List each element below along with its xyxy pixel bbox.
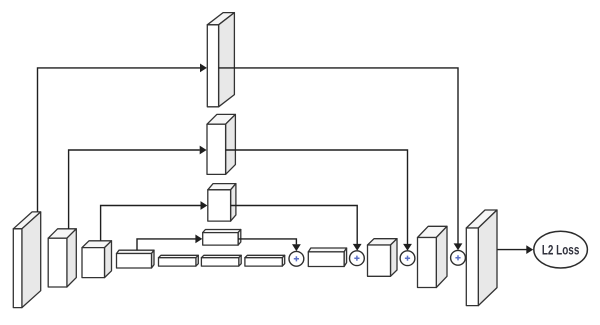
bottleneck box U4	[203, 230, 241, 246]
slab B	[201, 255, 241, 266]
slab A	[159, 255, 199, 266]
decoder box D3	[368, 239, 398, 277]
upsample box U3	[208, 184, 236, 222]
add node A2	[350, 251, 365, 266]
upsample box U1 (top)	[207, 13, 234, 107]
skip wire level2 out	[226, 150, 412, 251]
add node A4	[451, 250, 466, 265]
skip wire level1 out	[219, 68, 463, 250]
encoder box E1	[13, 212, 40, 308]
skip wire level4 in	[137, 235, 202, 251]
add node A3	[400, 251, 415, 266]
skip wire level3 in	[101, 201, 208, 241]
decoder slab D4	[308, 248, 346, 267]
output box D1	[466, 210, 497, 306]
wire to L2 loss	[498, 245, 534, 254]
upsample box U2	[207, 114, 235, 174]
decoder box D2	[418, 226, 448, 287]
add node A1	[289, 251, 304, 266]
encoder box E2	[48, 229, 76, 287]
skip wire level3 out	[231, 206, 362, 251]
encoder box E3	[82, 241, 112, 278]
skip wire level1 in	[38, 64, 207, 212]
skip wire level4 out	[238, 239, 301, 251]
encoder box E4	[117, 250, 155, 268]
L2 Loss node	[534, 231, 588, 268]
svg-text:L2 Loss: L2 Loss	[542, 242, 580, 257]
slab C	[245, 255, 285, 266]
skip wire level2 in	[69, 146, 207, 229]
